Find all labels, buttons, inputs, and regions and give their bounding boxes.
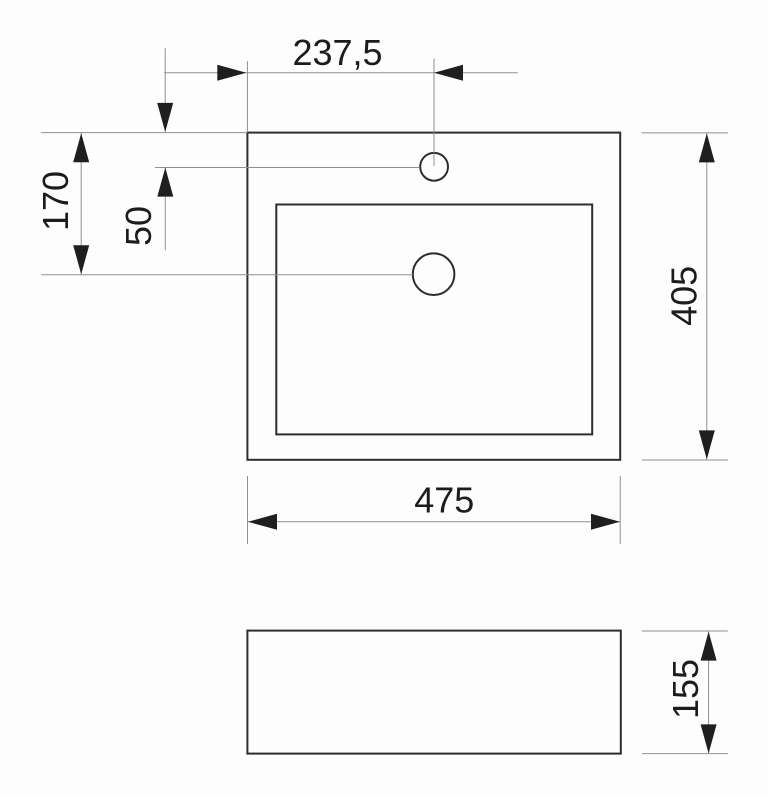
extension line 155 bottom [642,753,728,755]
arrow 155 top [701,632,717,661]
drain hole [413,253,455,295]
arrow 237,5 left [217,65,246,81]
extension line 475 right [619,476,621,544]
svg-text:237,5: 237,5 [292,32,382,73]
basin inner bowl outline [276,205,592,435]
side view outline (bottom) [247,631,620,754]
extension line 475 left [247,476,249,544]
extension line at faucet hole center [433,59,435,166]
dimension 50 upper arrow tail [164,48,166,132]
dimension line 237,5 [164,72,518,74]
svg-text:475: 475 [414,480,474,521]
svg-text:50: 50 [118,206,159,246]
extension line at basin left edge [246,61,248,132]
dimension line 155 [708,632,710,754]
arrow 405 bottom [699,430,715,459]
arrow 475 left [248,514,277,530]
arrow 50 down [157,103,173,132]
extension line drain center [41,274,412,276]
svg-text:155: 155 [665,659,706,719]
faucet hole [420,153,448,181]
arrow 475 right [591,514,620,530]
extension line top edge left [41,132,247,134]
dimension 50 lower arrow tail [164,168,166,251]
basin outer outline (top view) [247,133,620,460]
svg-text:170: 170 [35,171,76,231]
extension line 405 top [642,132,728,134]
arrow 237,5 right [434,65,463,81]
dimension line 405 [706,133,708,459]
dimension line 475 [248,521,620,523]
dimension line 170 [80,133,82,275]
extension line at faucet hole height [155,167,420,169]
arrow 170 bottom [73,245,89,274]
arrow 405 top [699,133,715,162]
arrow 50 up [157,168,173,197]
arrow 170 top [73,133,89,162]
extension line 405 bottom [642,459,728,461]
arrow 155 bottom [701,724,717,753]
svg-text:405: 405 [663,266,704,326]
extension line 155 top [642,630,728,632]
